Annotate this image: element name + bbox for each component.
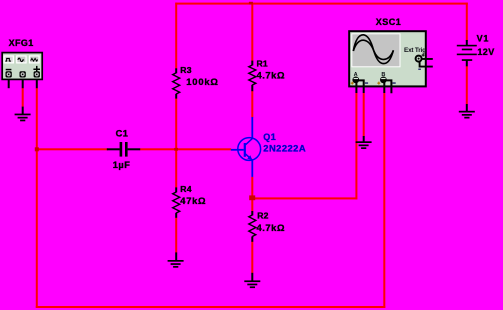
XSC1 channel A minus mark	[365, 82, 368, 83]
XSC1 channel B plus mark	[377, 82, 380, 85]
R4 zigzag	[173, 192, 180, 213]
XSC1 channel A minus pin wire	[357, 80, 364, 93]
ground below XFG1 common	[15, 107, 31, 122]
junction input node	[35, 147, 39, 151]
wire R3 top	[175, 3, 177, 69]
wire R1 top	[251, 3, 253, 61]
XSC1 channel A terminal	[352, 77, 359, 84]
wire scope A minus down	[363, 93, 365, 136]
ground below R4	[168, 252, 184, 267]
V1 plate long bottom	[457, 54, 477, 56]
Q1 emitter diagonal	[245, 154, 252, 160]
XFG1 terminal minus	[6, 71, 12, 77]
XSC1 trigger terminal	[416, 56, 422, 62]
svg-text:2N2222A: 2N2222A	[263, 143, 306, 154]
XFG1 sine wave button	[16, 55, 27, 63]
svg-text:47kΩ: 47kΩ	[180, 195, 206, 206]
transistor Q1	[231, 117, 306, 177]
R2 zigzag	[249, 215, 256, 237]
wire R1 to collector	[251, 91, 253, 117]
wire scope A plus down	[355, 93, 357, 199]
wire XFG1 mid down	[22, 88, 24, 107]
XFG1 pin stub plus	[36, 79, 38, 88]
XSC1 channel A plus mark	[351, 82, 354, 85]
V1 top stub	[466, 40, 468, 45]
svg-text:XSC1: XSC1	[376, 17, 402, 27]
junction base divider node	[174, 148, 178, 151]
V1 bottom stub	[466, 60, 468, 66]
wire XFG1 plus down	[36, 88, 38, 308]
R3 top stub	[175, 68, 177, 73]
XSC1 trigger pin 2	[420, 62, 433, 67]
function generator XFG1	[2, 38, 42, 88]
wire emitter node horizontal	[251, 197, 357, 199]
XFG1 terminal common	[20, 71, 26, 77]
wire V1 top	[466, 3, 468, 41]
XSC1 channel B terminal	[380, 77, 387, 84]
XFG1 minus mark	[6, 69, 12, 71]
Q1 collector lead	[251, 117, 253, 139]
resistor R1	[249, 58, 285, 91]
battery V1	[457, 33, 495, 66]
R3 bottom stub	[175, 94, 177, 99]
svg-text:1µF: 1µF	[113, 160, 131, 170]
Q1 collector diagonal	[245, 138, 252, 145]
wire R2 bottom	[251, 242, 253, 274]
V1 plate short upper	[462, 49, 472, 51]
R1 top stub	[251, 61, 253, 66]
Q1 emitter arrow	[247, 155, 252, 160]
XSC1 screen	[351, 33, 400, 67]
R2 bottom stub	[251, 236, 253, 241]
wire R4 bottom	[175, 218, 177, 253]
svg-text:12V: 12V	[477, 47, 494, 57]
ground below V1	[459, 104, 475, 119]
wire V1 bottom	[466, 66, 468, 104]
wire C1 to base	[140, 148, 231, 150]
svg-text:R4: R4	[180, 184, 191, 194]
svg-text:V1: V1	[477, 33, 490, 43]
junction emitter node	[249, 195, 255, 200]
svg-text:4.7kΩ: 4.7kΩ	[257, 70, 286, 81]
C1 left plate	[120, 142, 123, 157]
ground below scope A minus	[356, 136, 372, 149]
Q1 base lead	[231, 149, 244, 151]
C1 right lead	[128, 148, 141, 150]
XFG1 plus mark	[33, 66, 40, 73]
XSC1 channel A plus pin wire	[355, 83, 357, 93]
svg-text:100kΩ: 100kΩ	[186, 76, 218, 87]
resistor R3	[173, 65, 219, 99]
XSC1 trigger pin 1	[422, 58, 433, 60]
svg-text:R1: R1	[257, 58, 268, 68]
XFG1 pin stub minus	[8, 79, 10, 88]
wire input to C1	[37, 148, 109, 150]
XSC1 trigger plus mark	[422, 54, 425, 57]
C1 left lead	[107, 148, 120, 150]
XFG1 pin stub common	[22, 79, 24, 88]
svg-text:C1: C1	[116, 128, 129, 138]
svg-text:4.7kΩ: 4.7kΩ	[257, 222, 286, 233]
svg-text:R3: R3	[180, 65, 191, 75]
XFG1 body	[2, 53, 42, 80]
XSC1 screen big wave	[353, 35, 393, 64]
wire R3 to R4	[175, 99, 177, 188]
junction collector rail node	[249, 2, 253, 5]
wire R2 top	[251, 199, 253, 211]
XSC1 trigger minus mark	[418, 69, 421, 70]
wire scope B plus down	[383, 93, 385, 308]
XFG1 triangle wave button	[29, 55, 40, 63]
V1 plate short lower	[462, 59, 472, 61]
R1 bottom stub	[251, 85, 253, 91]
resistor R2	[249, 211, 285, 242]
V1 plate long top	[457, 45, 477, 47]
Q1 emitter lead	[251, 160, 253, 177]
svg-text:R2: R2	[257, 211, 268, 221]
oscilloscope XSC1	[349, 17, 433, 93]
Q1 base bar	[244, 143, 246, 157]
R1 zigzag	[249, 65, 256, 85]
R3 zigzag	[173, 73, 180, 94]
XSC1 screen small wave	[353, 40, 393, 59]
XSC1 channel B minus pin wire	[385, 80, 392, 93]
R4 top stub	[175, 187, 177, 192]
wire bottom rail	[36, 306, 386, 308]
XSC1 channel B minus mark	[393, 82, 396, 83]
XSC1 channel B plus pin wire	[383, 83, 385, 93]
XFG1 terminal plus	[34, 71, 40, 77]
svg-text:Q1: Q1	[263, 132, 276, 142]
capacitor C1	[107, 128, 140, 170]
XSC1 body	[349, 31, 426, 86]
wire emitter down	[251, 177, 253, 199]
XFG1 square wave button	[3, 55, 14, 63]
C1 right plate	[125, 142, 128, 157]
Q1 circle	[238, 138, 261, 161]
R2 top stub	[251, 211, 253, 215]
resistor R4	[173, 184, 207, 218]
ground below R2	[244, 273, 260, 288]
R4 bottom stub	[175, 213, 177, 218]
wire top rail	[175, 3, 468, 5]
svg-text:Ext Trig: Ext Trig	[404, 47, 426, 54]
svg-text:XFG1: XFG1	[9, 38, 34, 48]
